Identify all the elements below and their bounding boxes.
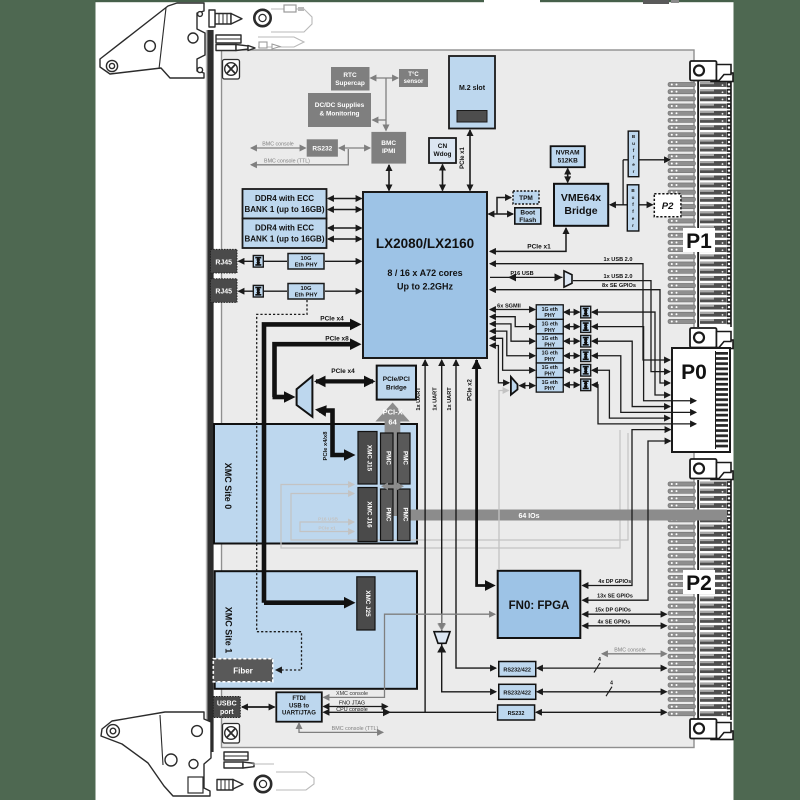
PHY5 wire to P0: [592, 385, 696, 424]
phy-transformer link: [564, 340, 580, 342]
wire 15x DP GPIOs: [583, 613, 667, 615]
svg-text:TPM: TPM: [519, 195, 533, 202]
svg-text:BANK 1 (up to 16GB): BANK 1 (up to 16GB): [245, 235, 325, 244]
RTC Supercap box: [331, 67, 370, 91]
svg-text:6x SGMII: 6x SGMII: [497, 303, 521, 309]
wire PCIe x1 CPU to VME64x: [490, 228, 566, 251]
buffer riser wires: [622, 160, 624, 205]
svg-text:4: 4: [598, 657, 601, 663]
svg-text:1G eth: 1G eth: [542, 307, 558, 313]
XMC J15 connector: [358, 432, 377, 485]
CPU LX2080/LX2160: [363, 192, 487, 358]
svg-text:u: u: [632, 195, 635, 200]
svg-text:Wdog: Wdog: [433, 151, 451, 158]
P2 label: [683, 570, 715, 594]
vertical supervision bus: [385, 78, 387, 131]
phy-transformer link: [564, 355, 580, 357]
svg-text:PCIe/PCI: PCIe/PCI: [383, 376, 410, 383]
svg-text:XMC Site 0: XMC Site 0: [223, 463, 233, 510]
10G Eth PHY 1: [288, 284, 324, 300]
svg-text:PCIe x4: PCIe x4: [331, 368, 355, 375]
XMC J16 connector: [358, 488, 377, 542]
DDR4 bank 1b: [243, 219, 327, 249]
DDR4 bank 1a: [243, 189, 327, 219]
XMC console wire: [324, 614, 496, 697]
connector P1 pin rows: [668, 82, 731, 88]
transformer: [581, 335, 591, 347]
svg-text:1x UART: 1x UART: [433, 387, 439, 411]
svg-text:Up to 2.2GHz: Up to 2.2GHz: [397, 282, 454, 292]
transformer: [581, 321, 591, 333]
connector P2 pin rows: [668, 481, 731, 487]
svg-text:T°C: T°C: [408, 72, 419, 78]
1G eth PHY 1: [536, 319, 563, 334]
PCI-X 64 shaft: [385, 418, 401, 516]
wire bus to DC/DC: [373, 119, 387, 121]
svg-text:13x SE GPIOs: 13x SE GPIOs: [597, 594, 633, 600]
1G eth PHY 3: [536, 348, 563, 363]
1G eth PHY 0: [536, 305, 563, 320]
RS232 box (BMC): [307, 139, 338, 156]
SGMII mux: [511, 377, 518, 395]
P2 stub box (dashed): [654, 194, 681, 217]
svg-text:P2: P2: [662, 201, 674, 212]
1G eth PHY 2: [536, 334, 563, 349]
handle protrusion box: [188, 777, 203, 793]
svg-text:USB to: USB to: [289, 703, 309, 709]
Fiber box: [213, 659, 272, 682]
svg-text:4x SE GPIOs: 4x SE GPIOs: [598, 619, 631, 625]
wire BMC IPMI to CPU: [388, 165, 390, 191]
transformer: [581, 379, 591, 391]
RS232/422 box 1: [499, 662, 536, 677]
wire 1x USB 2.0 upper: [490, 264, 670, 360]
wire 13x SE GPIOs: [583, 441, 671, 600]
svg-text:1x USB 2.0: 1x USB 2.0: [604, 274, 633, 280]
Buffer box 2: [627, 185, 639, 231]
wire USBC to FTDI: [242, 706, 275, 708]
svg-text:P16 USB: P16 USB: [318, 517, 339, 523]
NVRAM box: [551, 146, 585, 167]
svg-text:CN: CN: [438, 143, 448, 150]
PCIe mux trapezoid: [297, 376, 313, 417]
PMC connectors site 0 lower: [381, 489, 394, 541]
svg-text:BMC console (TTL): BMC console (TTL): [332, 726, 379, 732]
svg-text:FN0: FPGA: FN0: FPGA: [509, 600, 570, 612]
1G eth PHY 4: [536, 363, 563, 378]
SGMII wire 2: [490, 324, 535, 341]
svg-text:FTDI: FTDI: [292, 696, 306, 702]
svg-text:port: port: [220, 709, 234, 716]
svg-text:IPMI: IPMI: [382, 148, 396, 155]
P1 top mounting bracket: [690, 61, 733, 82]
BMC IPMI box: [371, 132, 406, 164]
svg-text:PCIe x4: PCIe x4: [320, 316, 344, 323]
top panel screw bolt: [215, 14, 231, 25]
VME64x bridge box: [554, 184, 608, 226]
transformer: [581, 350, 591, 362]
10G Eth PHY 0: [288, 254, 324, 270]
console mux: [434, 632, 450, 644]
svg-text:P2: P2: [686, 572, 712, 595]
transformer: [581, 364, 591, 376]
PHY3 wire to P0: [592, 356, 696, 413]
temperature sensor box: [399, 69, 428, 87]
svg-text:PCIe x4/x8: PCIe x4/x8: [323, 431, 329, 461]
board screw top: [223, 60, 240, 80]
green backdrop right band: [734, 0, 800, 800]
svg-text:XMC J15: XMC J15: [366, 445, 373, 472]
P1 body centre line: [697, 80, 699, 327]
svg-text:e: e: [632, 216, 635, 221]
svg-text:CPU console: CPU console: [336, 707, 367, 713]
P2 right edge line: [730, 480, 732, 720]
CN Wdog box: [429, 138, 456, 163]
P1 right edge line: [730, 80, 732, 327]
svg-text:e: e: [632, 162, 635, 167]
XMC J25 connector: [357, 577, 375, 630]
bottom bolt: [217, 780, 233, 791]
svg-text:XMC J16: XMC J16: [366, 501, 373, 528]
svg-text:PHY: PHY: [544, 386, 555, 392]
svg-text:DDR4 with ECC: DDR4 with ECC: [255, 224, 314, 233]
RJ45 port 1: [211, 279, 238, 303]
wire RJ45-0 to CPU: [239, 260, 288, 262]
wire 4x SE GPIOs: [583, 625, 667, 627]
svg-text:RJ45: RJ45: [215, 259, 232, 266]
SGMII wire 5: [490, 346, 509, 383]
svg-text:r: r: [633, 169, 635, 174]
svg-text:RS232/422: RS232/422: [503, 690, 531, 696]
svg-text:PCIe x1: PCIe x1: [527, 244, 551, 251]
transformer T1: [253, 285, 263, 297]
DDR wires to CPU: [328, 198, 362, 200]
faint ghost outlines top: [258, 9, 312, 47]
svg-text:BMC console: BMC console: [262, 142, 294, 148]
svg-text:PCIe x8: PCIe x8: [325, 335, 349, 342]
wire RJ45-1 to CPU: [239, 290, 288, 292]
front panel vertical bar: [206, 30, 208, 752]
transformer T0: [253, 255, 263, 267]
svg-text:1G eth: 1G eth: [542, 351, 558, 357]
RJ45 port 0: [211, 249, 238, 273]
svg-text:P1: P1: [686, 230, 712, 253]
PHY4 wire to P0: [592, 370, 670, 418]
M.2 slot: [449, 56, 495, 129]
P1 label: [683, 228, 715, 252]
svg-text:PMC: PMC: [385, 451, 392, 465]
bottom standoff cylinders: [224, 752, 248, 760]
svg-text:PHY: PHY: [544, 371, 555, 377]
phy-transformer link: [564, 369, 580, 371]
svg-text:UART/JTAG: UART/JTAG: [282, 711, 316, 717]
wire 1x USB 2.0 lower: [573, 281, 670, 372]
green backdrop left band: [0, 0, 96, 800]
dotted wire PHY1 to Fiber: [257, 300, 307, 670]
phy-transformer link: [564, 311, 580, 313]
svg-text:M.2 slot: M.2 slot: [459, 85, 486, 92]
svg-text:PMC: PMC: [402, 451, 409, 465]
svg-text:PCIe x2: PCIe x2: [468, 379, 474, 401]
64 IOs bus bar: [402, 510, 727, 521]
svg-text:PHY: PHY: [544, 313, 555, 319]
board outline (PCB): [222, 50, 695, 748]
svg-text:PMC: PMC: [402, 508, 409, 522]
svg-text:P16 USB: P16 USB: [510, 271, 533, 277]
gray feed to SGMII mux: [499, 391, 509, 570]
CPU console wire: [324, 711, 497, 713]
P16 USB mux: [564, 271, 572, 287]
svg-text:RS232: RS232: [312, 146, 332, 153]
svg-text:512KB: 512KB: [558, 158, 579, 165]
svg-text:4: 4: [610, 681, 613, 687]
svg-text:Eth PHY: Eth PHY: [295, 263, 318, 269]
RS232/422 box 2: [499, 684, 536, 699]
svg-text:NVRAM: NVRAM: [556, 150, 580, 157]
PHY2 wire to P0: [592, 341, 670, 406]
svg-text:10G: 10G: [301, 256, 312, 262]
USBC port box: [213, 697, 240, 718]
bottom handle ring: [255, 776, 271, 792]
DC/DC supplies box: [308, 93, 371, 127]
svg-text:1x UART: 1x UART: [447, 387, 453, 411]
svg-text:sensor: sensor: [404, 79, 424, 85]
connector P0: [672, 348, 730, 452]
P1 bottom / P0 top bracket: [690, 328, 733, 349]
svg-text:BMC: BMC: [381, 140, 396, 147]
SGMII wire 0: [490, 309, 535, 311]
SGMII wire 4: [490, 338, 535, 370]
svg-text:1x USB 2.0: 1x USB 2.0: [604, 257, 633, 263]
gray arrow into console mux: [441, 614, 443, 629]
BMC console wire to P2: [602, 653, 667, 655]
svg-text:& Monitoring: & Monitoring: [319, 111, 359, 118]
svg-text:VME64x: VME64x: [561, 192, 601, 204]
svg-text:XMC console: XMC console: [336, 691, 368, 697]
svg-text:15x DP GPIOs: 15x DP GPIOs: [595, 608, 631, 614]
wire RS232 to BMC IPMI: [339, 147, 370, 149]
svg-text:1G eth: 1G eth: [542, 380, 558, 386]
svg-text:Fiber: Fiber: [233, 667, 253, 676]
thick wire mux to XMC J15: [319, 411, 348, 456]
XMC Site 1 box: [215, 571, 417, 689]
svg-text:64 IOs: 64 IOs: [518, 513, 539, 520]
svg-text:Bridge: Bridge: [564, 205, 597, 217]
wire CN Wdog to CPU: [442, 165, 444, 191]
svg-text:RS232/422: RS232/422: [503, 668, 531, 674]
svg-text:PHY: PHY: [544, 328, 555, 334]
svg-text:64: 64: [388, 418, 397, 427]
wire NVRAM to VME64x: [567, 169, 569, 183]
svg-text:BMC console (TTL): BMC console (TTL): [264, 158, 310, 164]
svg-text:BMC console: BMC console: [614, 647, 646, 653]
top edge marks: [284, 5, 296, 12]
svg-text:DDR4 with ECC: DDR4 with ECC: [255, 194, 314, 203]
svg-text:PCIe x1: PCIe x1: [460, 147, 466, 169]
SGMII wire 1: [490, 317, 535, 327]
transformer: [581, 306, 591, 318]
svg-text:8 / 16 x A72 cores: 8 / 16 x A72 cores: [387, 268, 462, 278]
1G eth PHY 5: [536, 378, 563, 393]
wire M.2 to CPU (PCIe x1): [469, 130, 471, 191]
faint ghost outlines bottom: [252, 764, 314, 790]
svg-text:PCIe x1: PCIe x1: [318, 526, 336, 532]
wire CPU to Boot Flash / TPM: [489, 213, 514, 215]
bottom ejector handle: [101, 712, 254, 796]
BMC console TTL wire: [299, 723, 383, 732]
UART wire 1: [424, 360, 426, 712]
thick wire PCIe x4 to XMC J25: [264, 324, 357, 602]
board screw bottom: [223, 724, 240, 744]
Boot Flash box: [515, 208, 541, 224]
PHY1 wire to P0: [592, 327, 696, 401]
svg-text:1G eth: 1G eth: [542, 322, 558, 328]
wire BMC console: [251, 147, 306, 149]
svg-text:Bridge: Bridge: [386, 385, 407, 392]
P0 bottom / P2 top bracket: [690, 459, 733, 480]
svg-text:RTC: RTC: [343, 72, 357, 79]
svg-text:RS232: RS232: [508, 711, 525, 717]
FN0 FPGA box: [498, 571, 581, 638]
PCIe/PCI bridge box: [377, 366, 416, 400]
svg-text:PMC: PMC: [385, 508, 392, 522]
svg-text:1G eth: 1G eth: [542, 336, 558, 342]
thick wire PCIe x2 into FPGA: [477, 360, 489, 586]
svg-text:8x SE GPIOs: 8x SE GPIOs: [602, 283, 636, 289]
svg-text:PHY: PHY: [544, 357, 555, 363]
PHY0 wire to P0: [592, 312, 670, 395]
wire P16 USB: [490, 276, 563, 278]
SGMII wire 3: [490, 331, 535, 356]
svg-text:BANK 1 (up to 16GB): BANK 1 (up to 16GB): [245, 205, 325, 214]
svg-text:Flash: Flash: [519, 217, 536, 224]
svg-text:10G: 10G: [301, 286, 312, 292]
svg-text:XMC J25: XMC J25: [364, 590, 371, 617]
wire RTC to T sensor: [371, 77, 399, 79]
top border line: [95, 0, 484, 2]
svg-text:PHY: PHY: [544, 342, 555, 348]
svg-text:LX2080/LX2160: LX2080/LX2160: [376, 236, 474, 251]
TPM box (dashed): [513, 191, 539, 204]
P2 body centre line: [697, 480, 699, 720]
svg-text:P0: P0: [681, 361, 707, 384]
PMC feed arrows: [381, 483, 388, 491]
XMC Site 0 box: [214, 424, 417, 544]
svg-text:Supercap: Supercap: [335, 80, 365, 87]
phy-transformer link: [564, 326, 580, 328]
PMC connectors site 0 upper: [381, 433, 394, 484]
phy-transformer link: [564, 384, 580, 386]
faint mezzanine routes: [281, 430, 620, 548]
PCI-X 64 arrow head: [375, 403, 409, 422]
P2 bottom bracket: [690, 719, 733, 740]
top handle ring: [254, 10, 270, 26]
svg-text:1G eth: 1G eth: [542, 365, 558, 371]
thick wire mux to PCIe/PCI bridge: [316, 379, 373, 383]
wire 4x DP GPIOs: [583, 430, 671, 586]
svg-text:1x UART: 1x UART: [416, 387, 422, 411]
UART wire 2 with mux: [442, 360, 496, 692]
Buffer box 1: [628, 131, 639, 177]
svg-text:XMC Site 1: XMC Site 1: [224, 607, 234, 654]
svg-text:DC/DC Supplies: DC/DC Supplies: [315, 102, 365, 109]
wire 8x SE GPIOs: [490, 290, 670, 383]
standoff cylinders: [216, 35, 241, 43]
svg-text:Eth PHY: Eth PHY: [295, 293, 318, 299]
top ejector handle: [100, 3, 271, 78]
svg-text:RJ45: RJ45: [215, 289, 232, 296]
FNO JTAG wire: [324, 706, 388, 708]
wire BMC console TTL: [251, 149, 348, 165]
UART wire 3: [456, 360, 496, 668]
svg-text:USBC: USBC: [217, 701, 237, 708]
svg-text:Boot: Boot: [520, 210, 536, 217]
svg-text:4x DP GPIOs: 4x DP GPIOs: [598, 579, 631, 585]
FTDI box: [276, 692, 322, 721]
svg-text:u: u: [632, 141, 635, 146]
thick wire PCIe x8 to mux: [275, 344, 358, 397]
svg-text:FNO JTAG: FNO JTAG: [339, 700, 365, 706]
RS232 box 3: [498, 705, 535, 720]
svg-text:PCI-X: PCI-X: [383, 408, 403, 417]
svg-text:r: r: [632, 223, 634, 228]
